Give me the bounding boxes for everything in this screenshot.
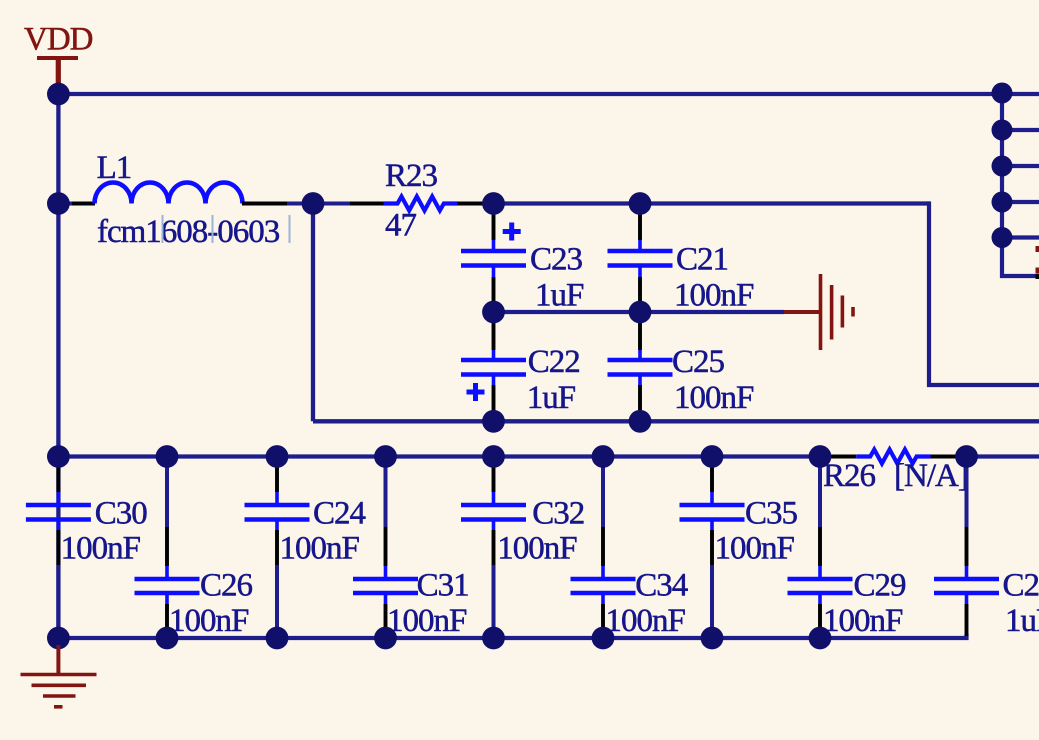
- svg-text:C22: C22: [528, 344, 580, 380]
- capacitor C25: [608, 314, 673, 419]
- svg-text:C24: C24: [313, 495, 366, 531]
- svg-text:100nF: 100nF: [606, 603, 686, 639]
- svg-text:C34: C34: [635, 568, 688, 604]
- svg-text:100nF: 100nF: [823, 603, 903, 639]
- resistor R26: [820, 450, 967, 464]
- svg-text:C28: C28: [1003, 568, 1039, 604]
- wire VDD top rail: [59, 92, 1039, 96]
- ground GND bottom left: [21, 645, 97, 707]
- capacitor C32: [461, 459, 526, 636]
- wire connector stub y=202: [1002, 200, 1039, 204]
- clipped pin number mark 2: [1036, 268, 1039, 274]
- node C25 bottom: [629, 410, 652, 433]
- wire connector stub y=166: [1002, 164, 1039, 168]
- wire bottom ground bus: [58, 634, 966, 638]
- capacitor C31: [353, 459, 418, 636]
- wire middle cap rail: [494, 310, 785, 314]
- svg-text:fcm1608-0603: fcm1608-0603: [97, 214, 280, 250]
- capacitor C34: [571, 459, 636, 636]
- node ground bus column 6: [592, 627, 615, 650]
- node top bus column 4: [374, 445, 397, 468]
- node top bus column 8: [809, 445, 832, 468]
- svg-text:C23: C23: [530, 242, 583, 278]
- svg-text:100nF: 100nF: [169, 603, 249, 639]
- svg-text:100nF: 100nF: [387, 603, 467, 639]
- node ground bus column 1: [47, 627, 70, 650]
- svg-text:100nF: 100nF: [674, 278, 754, 314]
- svg-text:C21: C21: [676, 242, 728, 278]
- svg-text:100nF: 100nF: [715, 531, 795, 567]
- node ground bus column 3: [266, 627, 289, 650]
- svg-text:1uF: 1uF: [1005, 603, 1039, 639]
- capacitor C22: [461, 314, 526, 419]
- svg-text:100nF: 100nF: [674, 380, 754, 416]
- node top bus column 5: [482, 445, 505, 468]
- svg-text:C29: C29: [854, 568, 907, 604]
- svg-text:C30: C30: [95, 495, 148, 531]
- node connector pin y=202: [992, 192, 1013, 213]
- resistor R23: [313, 197, 494, 211]
- caret marks in L1 value: [163, 215, 290, 243]
- node L1 input: [47, 192, 70, 215]
- wire L1 output vertical: [311, 204, 315, 422]
- wire lower cap rail to edge: [313, 419, 1039, 423]
- svg-text:L1: L1: [97, 150, 132, 186]
- node top bus column 2: [156, 445, 179, 468]
- svg-text:47: 47: [385, 208, 417, 244]
- wire bottom section top bus right of R26: [967, 454, 1039, 458]
- inductor L1: [59, 183, 313, 204]
- svg-text:VDD: VDD: [24, 22, 93, 58]
- power port VDD: [24, 22, 93, 89]
- node top bus column 6: [592, 445, 615, 468]
- wire right connector bus vertical: [1002, 93, 1039, 276]
- node L1 output: [302, 192, 325, 215]
- node top bus column 9: [955, 445, 978, 468]
- node C21 bottom: [629, 301, 652, 324]
- capacitor C30: [26, 459, 91, 636]
- svg-text:C26: C26: [200, 568, 253, 604]
- node connector pin y=166: [992, 156, 1013, 177]
- node C22 bottom: [482, 410, 505, 433]
- svg-text:C25: C25: [672, 344, 725, 380]
- node C21 top: [629, 192, 652, 215]
- svg-text:1uF: 1uF: [535, 278, 584, 314]
- svg-text:100nF: 100nF: [497, 531, 577, 567]
- node connector pin y=93: [992, 83, 1013, 104]
- capacitor C28: [934, 459, 999, 636]
- svg-text:C35: C35: [745, 495, 798, 531]
- node connector pin y=130: [992, 120, 1013, 141]
- svg-text:100nF: 100nF: [61, 531, 141, 567]
- svg-text:C32: C32: [532, 495, 584, 531]
- node ground bus column 8: [809, 627, 832, 650]
- node connector pin y=237.5: [992, 227, 1013, 248]
- clipped pin number mark 1: [1036, 246, 1039, 252]
- capacitor C21: [608, 206, 673, 310]
- node ground bus column 5: [482, 627, 505, 650]
- capacitor C23: [461, 206, 526, 310]
- node top bus column 1: [47, 445, 70, 468]
- node ground bus column 4: [374, 627, 397, 650]
- wire bottom section top bus: [58, 454, 820, 458]
- svg-text:100nF: 100nF: [280, 531, 360, 567]
- wire connector stub y=237.5: [1002, 235, 1039, 239]
- capacitor C35: [680, 459, 745, 636]
- wire filtered VDD rail: [494, 201, 930, 205]
- ground GND right (sideways): [784, 274, 853, 350]
- node C23 bottom: [482, 301, 505, 324]
- node top bus column 3: [266, 445, 289, 468]
- node VDD top: [47, 83, 70, 106]
- svg-text:[N/A]: [N/A]: [894, 458, 968, 494]
- clipped component mark: [1036, 274, 1039, 279]
- capacitor C29: [788, 459, 853, 636]
- wire right drop to edge: [929, 201, 1039, 385]
- svg-text:R23: R23: [385, 158, 438, 194]
- svg-text:C31: C31: [417, 568, 469, 604]
- svg-text:R26: R26: [823, 458, 876, 494]
- capacitor C24: [245, 459, 310, 636]
- wire connector stub y=130: [1002, 128, 1039, 132]
- svg-text:1uF: 1uF: [527, 380, 576, 416]
- capacitor C26: [135, 459, 200, 636]
- wire left vertical VDD trunk: [56, 94, 60, 638]
- node ground bus column 2: [156, 627, 179, 650]
- node R23 output / C23 top: [482, 192, 505, 215]
- node top bus column 7: [701, 445, 724, 468]
- node ground bus column 7: [701, 627, 724, 650]
